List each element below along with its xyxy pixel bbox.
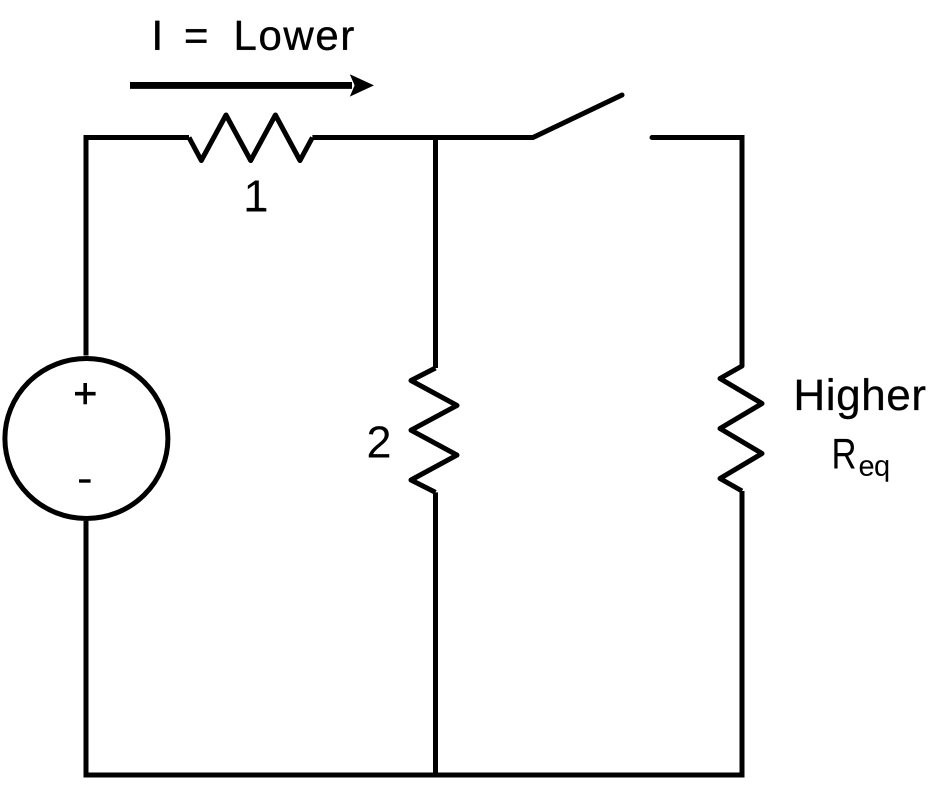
voltage source V1 — [5, 359, 168, 519]
wire: node A down to resistor R2 — [433, 138, 438, 369]
resistor R1 value label "1" — [247, 181, 267, 212]
voltage source minus sign — [79, 479, 91, 482]
wire: resistor R2 down to bottom wire — [433, 492, 438, 777]
switch SW1 (open) blade — [533, 95, 622, 138]
resistor R1 — [189, 115, 312, 161]
label "Higher Req" — [797, 378, 925, 482]
wire: source + terminal up and across to resistor R1 — [86, 138, 189, 356]
resistor R2 — [411, 368, 457, 492]
wire: resistor R1 to switch, through node A — [312, 135, 533, 140]
current label "I = Lower" — [155, 21, 353, 50]
resistor R2 value label "2" — [369, 426, 390, 457]
voltage source plus sign — [75, 383, 96, 404]
wire: source - terminal down, bottom rail, and up to resistor Req bottom — [86, 491, 742, 775]
wire: switch right terminal across and down to resistor Req — [652, 138, 742, 367]
current direction arrow — [130, 74, 374, 96]
resistor Req — [720, 366, 762, 491]
